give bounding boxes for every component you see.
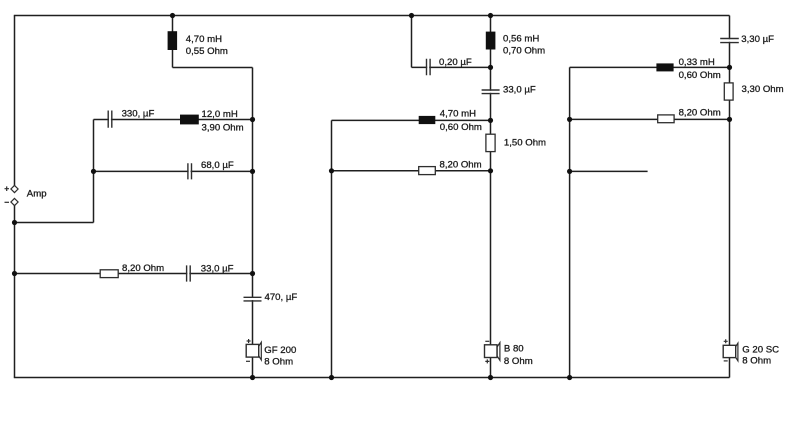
wire vertical x=94 bbox=[93, 120, 95, 223]
svg-text:0,20 µF: 0,20 µF bbox=[439, 57, 472, 68]
svg-text:8,20 Ohm: 8,20 Ohm bbox=[440, 160, 482, 171]
capacitor C5 0,20 uF bbox=[427, 57, 472, 75]
svg-text:8 Ohm: 8 Ohm bbox=[504, 356, 533, 367]
capacitor C1 330uF bbox=[108, 109, 154, 128]
node x570 / bottom rail bbox=[567, 375, 572, 380]
svg-text:3,30 Ohm: 3,30 Ohm bbox=[742, 84, 784, 95]
capacitor C2 68,0 uF bbox=[188, 160, 234, 179]
svg-text:G 20 SC: G 20 SC bbox=[742, 344, 779, 355]
wire row y=67 (0,33mH branch sec3) bbox=[570, 66, 730, 68]
node x570 / stub bbox=[567, 169, 572, 174]
wire left rail lower (from Amp -) bbox=[14, 205, 16, 377]
node x331 / row170 bbox=[329, 168, 334, 173]
node x729 / row67 sec3 bbox=[727, 65, 732, 70]
svg-text:330, µF: 330, µF bbox=[122, 109, 155, 120]
inductor L1 4,70 mH bbox=[168, 31, 228, 57]
svg-text:0,55 Ohm: 0,55 Ohm bbox=[186, 46, 228, 57]
node x490 / row67 bbox=[488, 65, 493, 70]
svg-text:0,60 Ohm: 0,60 Ohm bbox=[679, 70, 721, 81]
node top rail / L1 bbox=[170, 13, 175, 18]
capacitor C4 470 uF bbox=[244, 292, 298, 303]
wire branch inductor L1 vertical x=172 bbox=[172, 16, 174, 68]
capacitor C6 33,0 uF sec2 bbox=[482, 85, 536, 96]
svg-text:68,0 µF: 68,0 µF bbox=[201, 160, 234, 171]
node x490 / row170 bbox=[488, 168, 493, 173]
resistor R3 8,20 Ohm sec2 bbox=[419, 160, 482, 175]
svg-text:4,70 mH: 4,70 mH bbox=[440, 109, 476, 120]
svg-text:0,56 mH: 0,56 mH bbox=[503, 34, 539, 45]
wire vertical x=331 down to bottom rail bbox=[331, 120, 333, 377]
wire row y=67 (0,20uF branch) bbox=[412, 66, 491, 68]
inductor L3 4,70 mH sec2 bbox=[419, 109, 482, 133]
wire vertical x=729 right rail bbox=[729, 16, 731, 378]
svg-text:1,50 Ohm: 1,50 Ohm bbox=[504, 137, 546, 148]
inductor L5 0,33 mH bbox=[656, 57, 720, 81]
wire vertical x=570 down to bottom rail bbox=[569, 67, 571, 377]
svg-text:0,60 Ohm: 0,60 Ohm bbox=[440, 122, 482, 133]
svg-text:B 80: B 80 bbox=[504, 344, 524, 355]
wire top rail bbox=[14, 15, 730, 17]
wire vertical x=490 down to bottom rail bbox=[490, 16, 492, 378]
wire L1 bottom to x=252 bbox=[173, 67, 253, 69]
inductor L4 0,56 mH bbox=[486, 32, 545, 57]
resistor R1 8,20 Ohm sec1 bbox=[100, 263, 164, 277]
svg-text:4,70 mH: 4,70 mH bbox=[186, 34, 222, 45]
node x252 / row119 bbox=[250, 117, 255, 122]
wire row y=170 (8,20 Ohm branch sec2) bbox=[332, 170, 491, 172]
svg-text:0,33 mH: 0,33 mH bbox=[679, 57, 715, 68]
wire stub y=171 sec3 bbox=[570, 170, 648, 172]
inductor L2 12,0 mH bbox=[180, 109, 244, 134]
speaker G 20 SC bbox=[723, 339, 779, 366]
wire Amp junction row y=221 bbox=[15, 222, 94, 224]
svg-text:Amp: Amp bbox=[27, 189, 47, 200]
node x490 / bottom rail bbox=[488, 375, 493, 380]
node x252 / row273 bbox=[250, 271, 255, 276]
wire left rail upper (to Amp +) bbox=[14, 16, 16, 186]
amp port terminal + bbox=[5, 185, 19, 192]
node x252 / bottom rail bbox=[250, 375, 255, 380]
wire row y=119 (8,20 Ohm branch sec3) bbox=[570, 118, 730, 120]
speaker B 80 bbox=[485, 341, 533, 367]
svg-text:33,0 µF: 33,0 µF bbox=[503, 85, 536, 96]
capacitor C7 3,30 uF bbox=[720, 34, 774, 45]
svg-text:8,20 Ohm: 8,20 Ohm bbox=[679, 108, 721, 119]
resistor R4 3,30 Ohm bbox=[724, 83, 783, 100]
svg-text:12,0 mH: 12,0 mH bbox=[202, 109, 238, 120]
node left rail / row273 bbox=[12, 271, 17, 276]
amp port terminal - bbox=[5, 198, 19, 205]
node x490 / row120 bbox=[488, 118, 493, 123]
svg-text:8 Ohm: 8 Ohm bbox=[264, 357, 293, 368]
wire row y=119 (330uF / 12mH branch) bbox=[94, 119, 253, 121]
node top rail / x411 bbox=[409, 13, 414, 18]
node left rail / amp row bbox=[12, 220, 17, 225]
svg-text:8,20 Ohm: 8,20 Ohm bbox=[122, 263, 164, 274]
resistor R5 8,20 Ohm sec3 bbox=[658, 108, 721, 123]
wire row y=120 (4,70mH branch) bbox=[332, 119, 491, 121]
svg-text:8 Ohm: 8 Ohm bbox=[742, 355, 771, 366]
svg-text:33,0 µF: 33,0 µF bbox=[201, 263, 234, 274]
node top rail / x490 bbox=[488, 13, 493, 18]
node x331 / bottom rail bbox=[329, 375, 334, 380]
node x729 / row119 sec3 bbox=[727, 117, 732, 122]
wire bottom rail bbox=[14, 377, 730, 379]
node x94 / row171 bbox=[91, 169, 96, 174]
speaker GF 200 bbox=[246, 339, 296, 368]
svg-text:3,30 µF: 3,30 µF bbox=[741, 34, 774, 45]
svg-text:3,90 Ohm: 3,90 Ohm bbox=[202, 123, 244, 134]
capacitor C3 33,0 uF sec1 bbox=[187, 263, 234, 281]
resistor R2 1,50 Ohm bbox=[486, 134, 546, 151]
wire vertical x=411 from top rail bbox=[411, 16, 413, 68]
wire row y=273 (8,20 Ohm / 33uF branch) bbox=[15, 273, 253, 275]
svg-text:0,70 Ohm: 0,70 Ohm bbox=[503, 46, 545, 57]
node x252 / row171 bbox=[250, 169, 255, 174]
svg-text:470, µF: 470, µF bbox=[265, 292, 298, 303]
node x570 / row119 sec3 bbox=[567, 117, 572, 122]
wire row y=171 (68uF branch) bbox=[94, 170, 253, 172]
svg-text:GF 200: GF 200 bbox=[264, 345, 296, 356]
wire vertical x=252 down to bottom rail bbox=[252, 68, 254, 378]
